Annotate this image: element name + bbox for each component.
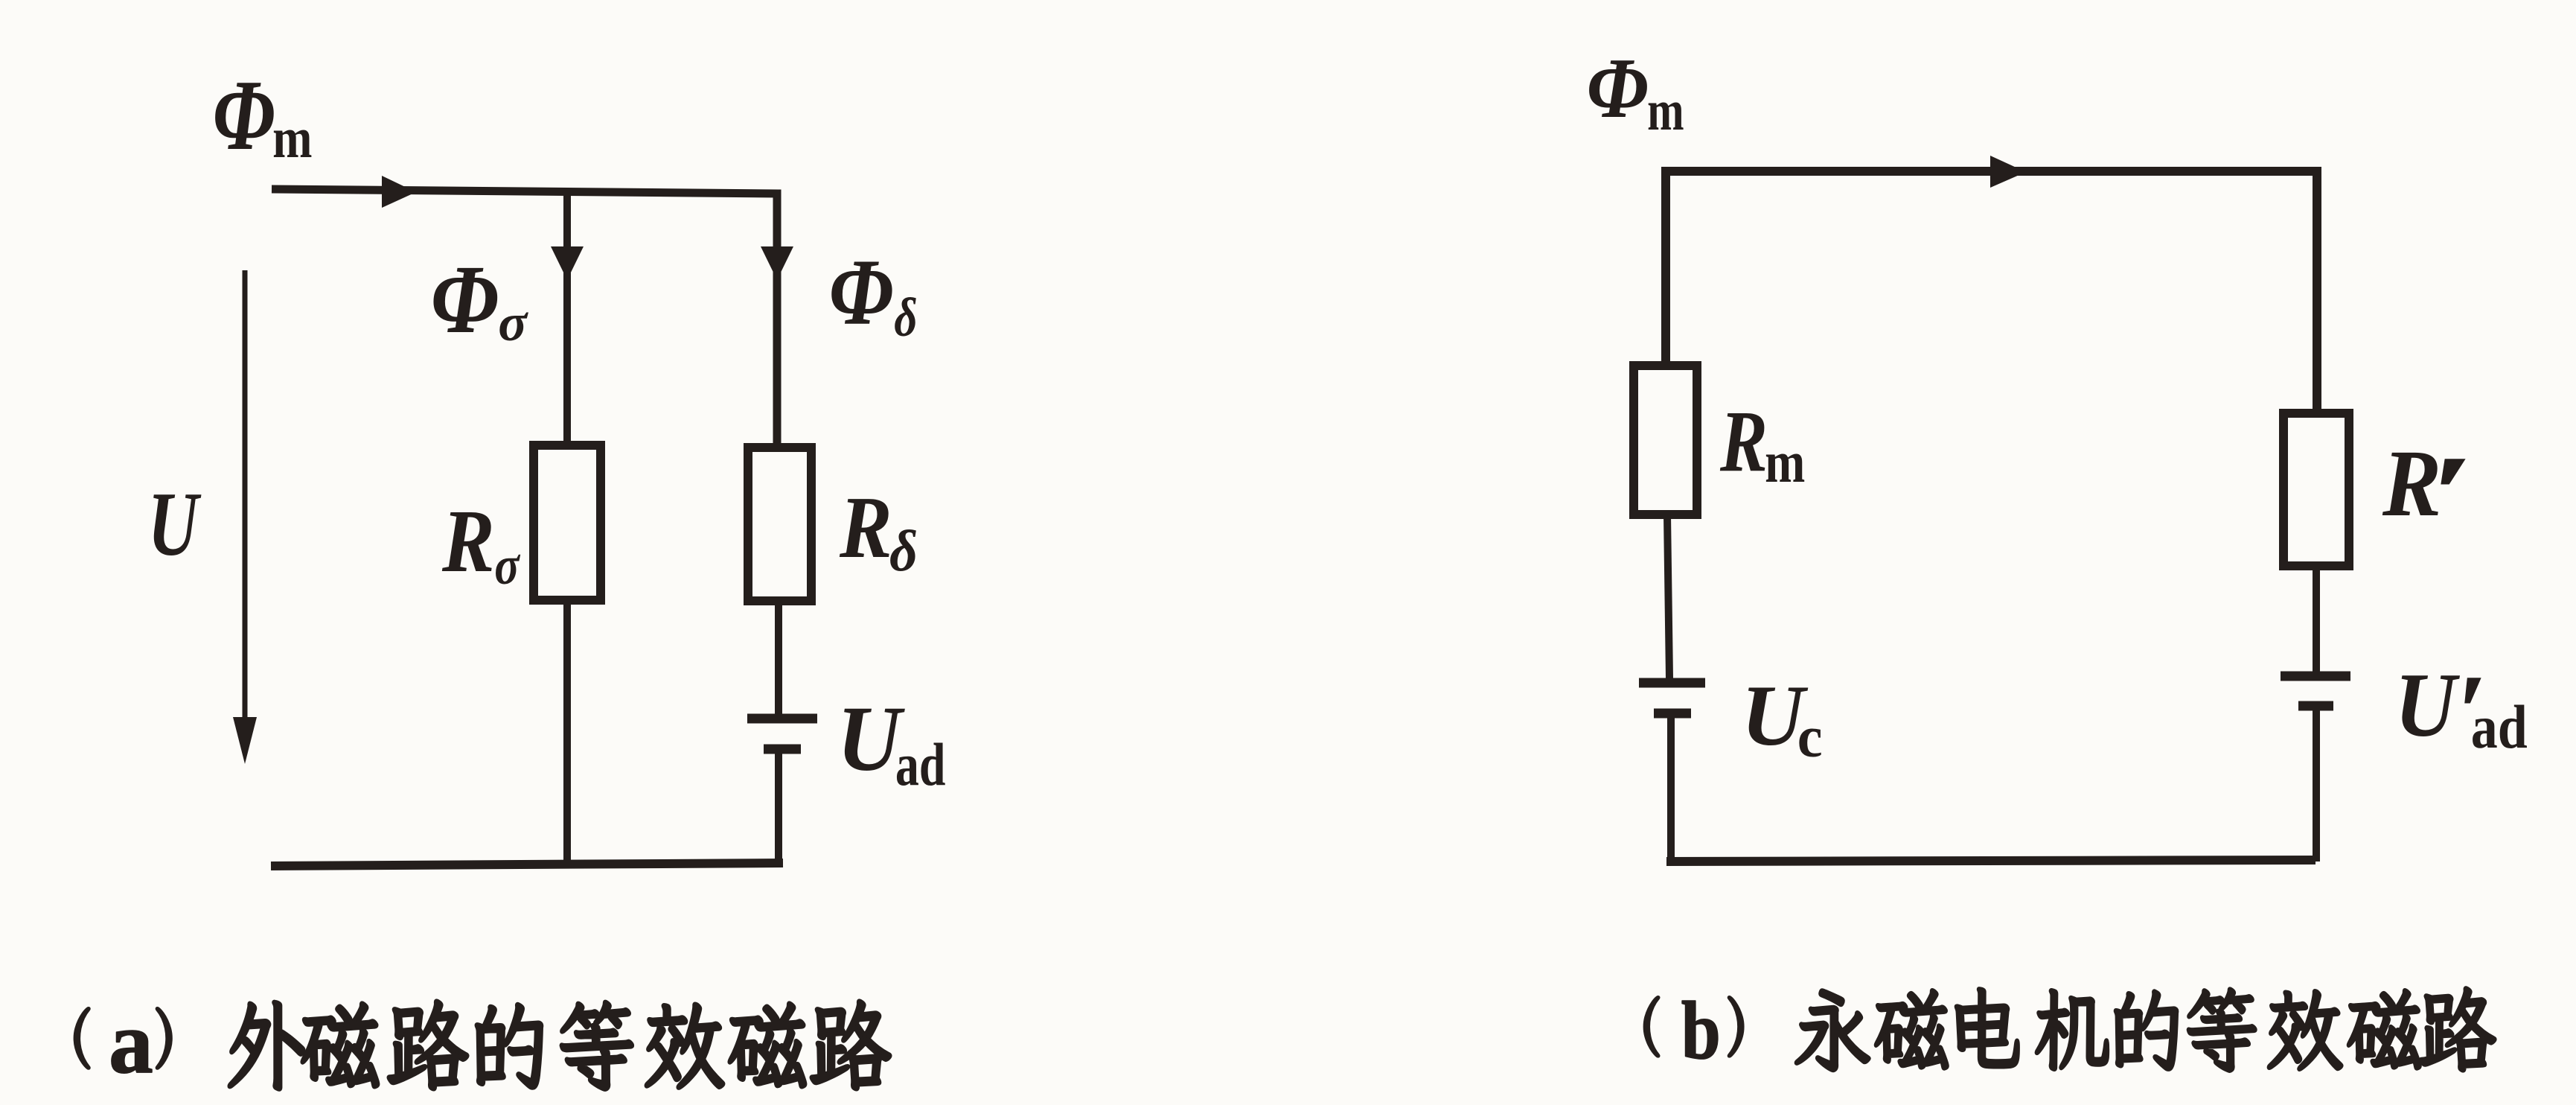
svg-text:c: c: [1797, 704, 1823, 769]
svg-text:R: R: [839, 480, 892, 577]
svg-text:U: U: [2394, 654, 2460, 755]
svg-text:σ: σ: [494, 535, 520, 596]
svg-text:σ: σ: [498, 294, 529, 352]
svg-text:Φ: Φ: [431, 244, 499, 353]
resistor Rsigma (leakage reluctance): [534, 445, 601, 600]
arrow: magnetic potential U reference (a): [243, 270, 248, 726]
mmf source Uad: short plate: [764, 745, 801, 754]
caption (b): (b) yong ci dian ji de deng xiao ci lu: [1644, 988, 2495, 1071]
resistor Rdelta (air-gap reluctance): [748, 448, 811, 601]
mmf source Uc: short plate: [1654, 709, 1691, 719]
wire: below Rdelta to mmf source Uad: [775, 605, 782, 714]
wire: top horizontal bus of circuit (a), flux Phi_m path: [272, 189, 779, 194]
resistor Rm (magnet internal reluctance): [1634, 366, 1697, 515]
svg-text:ad: ad: [2471, 692, 2528, 761]
wire: left branch vertical (a) from T-node down to Rsigma: [563, 192, 571, 445]
arrowhead: Phi_sigma direction on left branch (a): [551, 246, 584, 280]
svg-text:Φ: Φ: [829, 240, 894, 345]
svg-text:m: m: [1765, 429, 1805, 495]
mmf source Uad_prime: short plate: [2298, 701, 2333, 711]
arrowhead: Phi_m direction on top wire (b): [1990, 156, 2026, 188]
caption (a): (a) wai ci lu de deng xiao ci lu: [74, 1001, 890, 1089]
wire: top bus with corners, circuit (b): [1666, 171, 2317, 412]
mmf source Uc: long plate: [1639, 678, 1705, 688]
svg-text:′: ′: [2427, 433, 2473, 553]
arrowhead: Phi_delta direction on right branch (a): [761, 246, 793, 280]
wire: bottom horizontal bus (a): [271, 863, 783, 866]
svg-text:Φ: Φ: [1587, 39, 1649, 136]
svg-text:R: R: [1719, 393, 1768, 491]
wire: below Uad_prime to bottom bus (b): [2313, 706, 2320, 862]
wire: below Uad to bottom bus (a): [775, 749, 782, 864]
wire: below Rprime to source Uad_prime: [2313, 566, 2320, 672]
wire: below Rsigma to bottom bus (a): [563, 605, 571, 864]
mmf source Uad_prime: long plate: [2281, 672, 2350, 681]
wire: below Rm to source Uc: [1667, 515, 1669, 678]
svg-text:m: m: [1647, 77, 1684, 142]
svg-text:δ: δ: [889, 518, 918, 583]
wire: right branch vertical (a) corner down to Rdelta: [775, 194, 777, 448]
arrowhead: Phi_m direction on top wire (a): [382, 176, 416, 208]
svg-text:m: m: [272, 106, 312, 170]
svg-text:Φ: Φ: [213, 60, 275, 171]
resistor Rprime (external circuit reluctance): [2283, 413, 2349, 566]
wire: below Uc to bottom bus (b): [1667, 713, 1675, 862]
svg-text:ad: ad: [895, 731, 946, 798]
wire: bottom horizontal bus (b): [1666, 860, 2315, 862]
mmf source Uad: long plate: [747, 714, 817, 724]
svg-text:R: R: [441, 491, 495, 591]
svg-text:δ: δ: [894, 287, 917, 348]
svg-text:U: U: [148, 474, 202, 575]
